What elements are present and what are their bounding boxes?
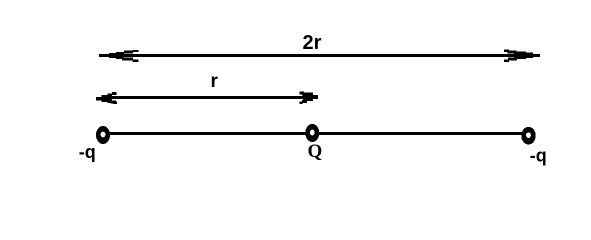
- svg-text:-q: -q: [530, 146, 547, 166]
- charge -q left: ring: [96, 126, 110, 144]
- svg-text:2r: 2r: [303, 32, 322, 54]
- arrowhead right of 2r arrow: [504, 50, 540, 63]
- arrowhead left of r arrow: [96, 92, 117, 104]
- svg-text:r: r: [211, 71, 219, 92]
- charge -q right: ring: [521, 127, 535, 145]
- dimension arrow r shaft: [104, 96, 312, 99]
- dimension arrow 2r shaft: [106, 54, 534, 57]
- arrowhead left of 2r arrow: [99, 50, 139, 62]
- svg-text:Q: Q: [308, 141, 323, 162]
- svg-text:-q: -q: [79, 142, 96, 162]
- charge Q middle: ring: [305, 124, 319, 142]
- wire: line between charges: [103, 132, 529, 135]
- arrowhead right of r arrow: [300, 92, 319, 105]
